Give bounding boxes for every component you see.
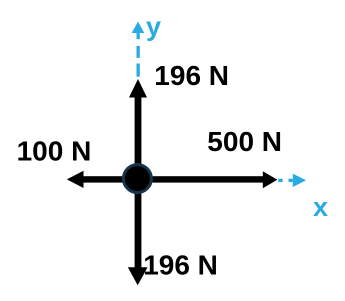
x-axis dash 1	[278, 179, 282, 182]
y-axis dash 2	[137, 64, 140, 77]
x-axis arrowhead	[293, 174, 306, 187]
svg-text:y: y	[146, 12, 161, 42]
svg-text:196 N: 196 N	[143, 249, 218, 280]
svg-text:100 N: 100 N	[17, 135, 92, 166]
y-axis stub	[137, 33, 140, 39]
force arrow left 100 N	[67, 171, 138, 188]
svg-text:500 N: 500 N	[207, 126, 282, 157]
y-axis dash 1	[137, 46, 140, 58]
force arrow right 500 N	[138, 171, 277, 188]
axis x (cyan dashed arrow)	[278, 174, 306, 187]
y-axis arrowhead	[132, 22, 145, 34]
force arrow down 196 N	[128, 179, 148, 285]
svg-text:196 N: 196 N	[154, 60, 229, 91]
axis y (cyan dashed arrow)	[132, 22, 145, 77]
particle (center dot)	[123, 165, 151, 193]
svg-text:x: x	[313, 192, 328, 222]
force arrow up 196 N	[129, 79, 147, 180]
x-axis dash 2	[289, 179, 293, 182]
